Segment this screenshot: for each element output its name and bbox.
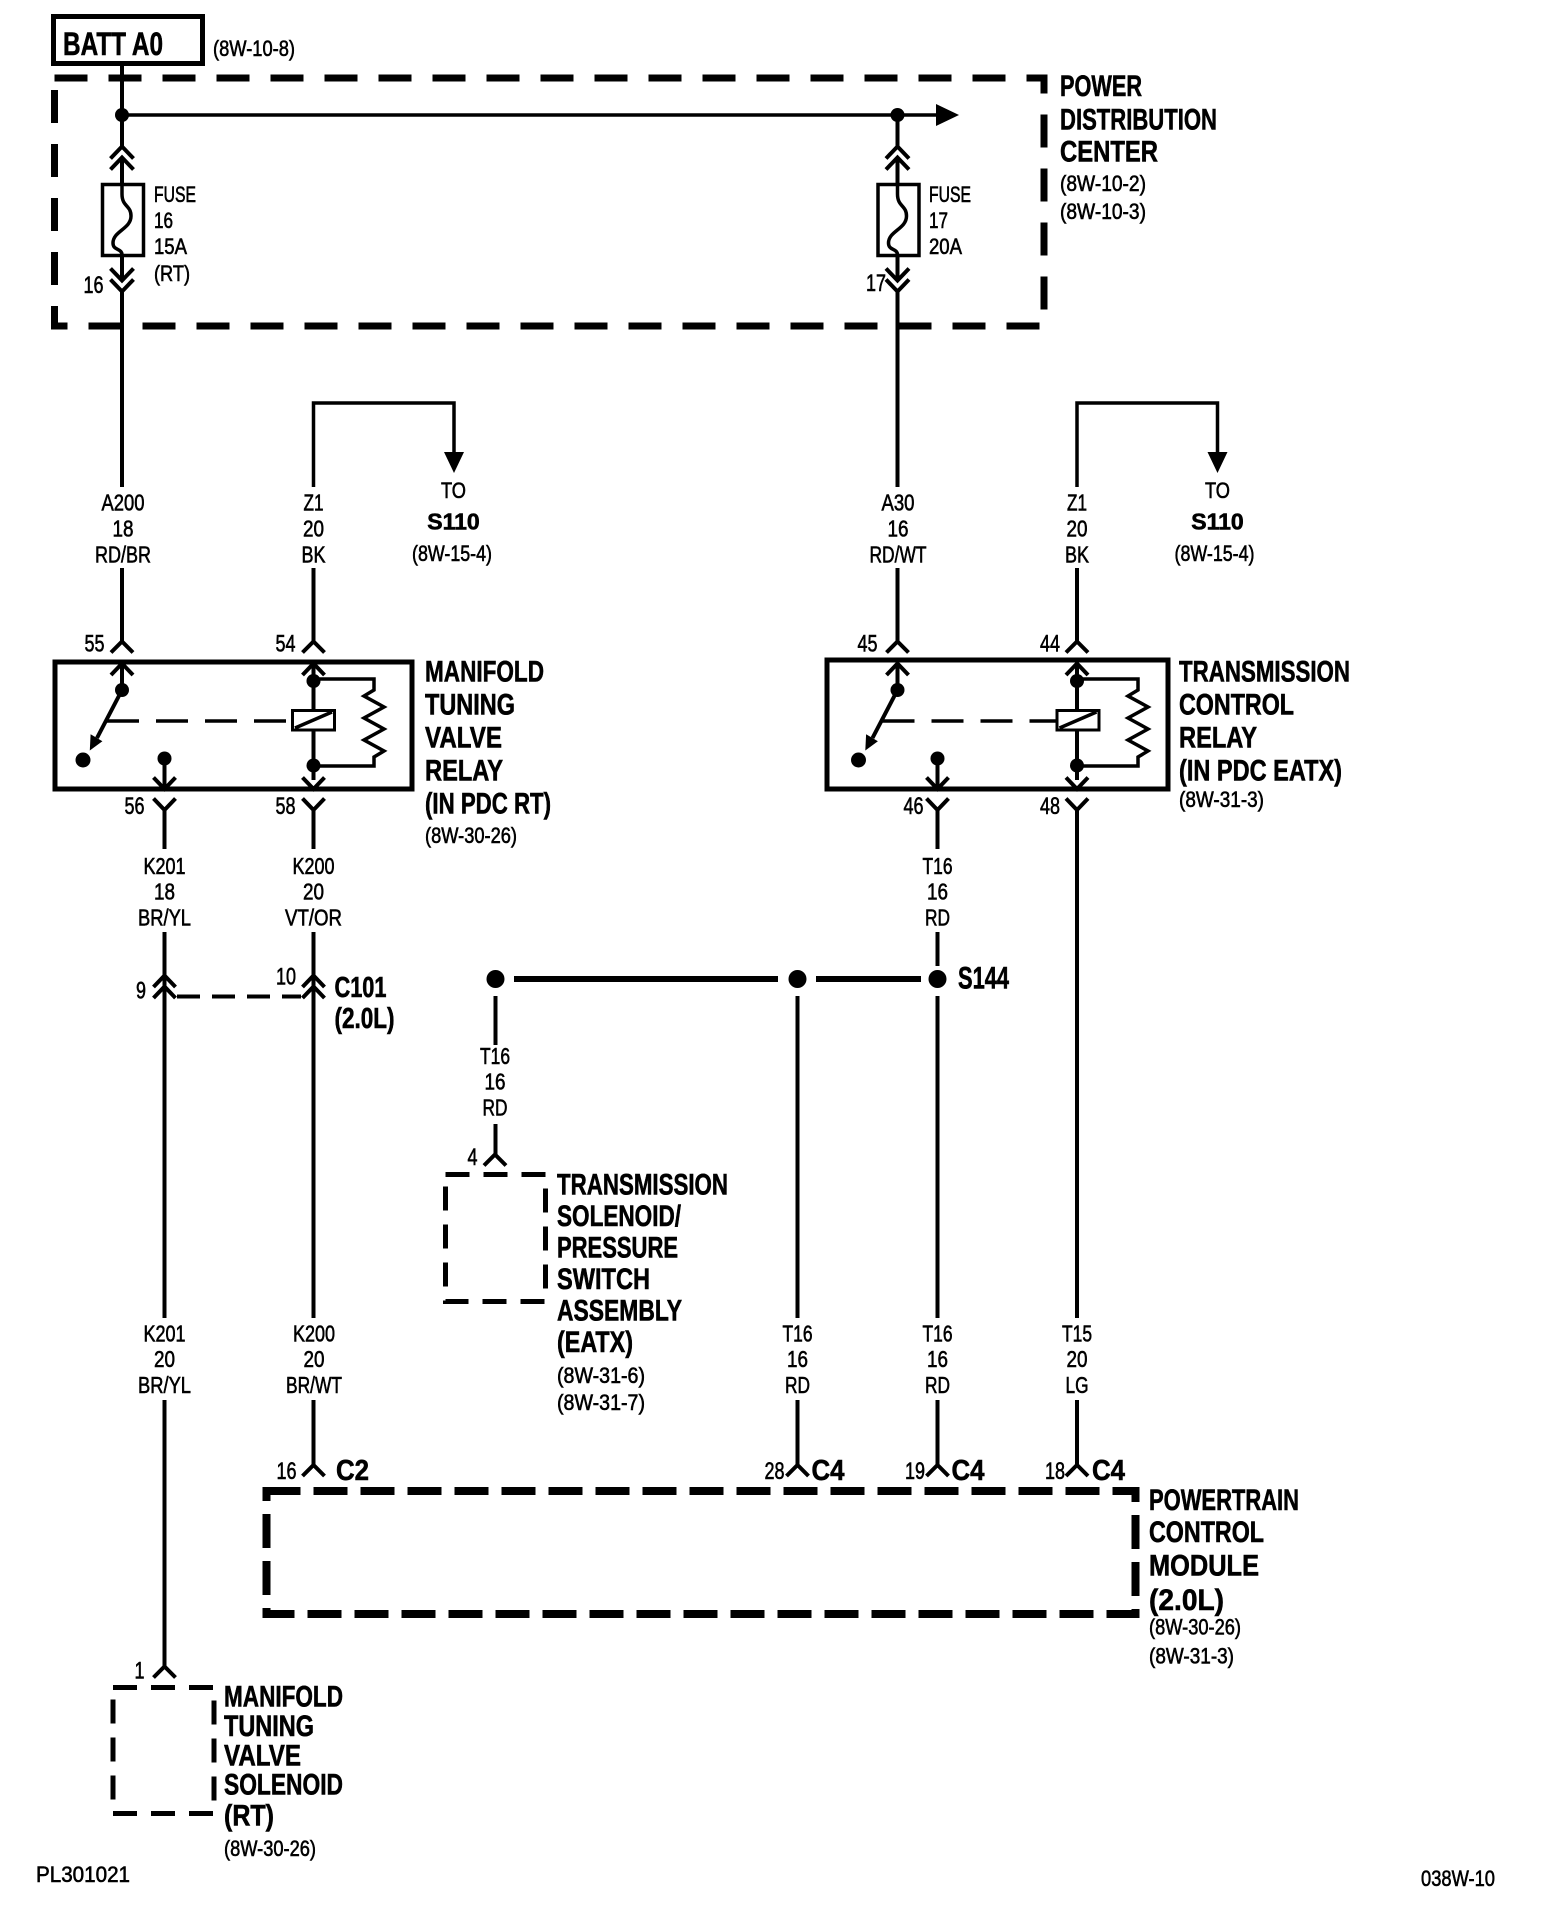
MANIFOLD TUNING VALVE SOLENOID label bbox=[224, 1681, 343, 1862]
svg-text:C4: C4 bbox=[952, 1455, 985, 1487]
svg-text:28: 28 bbox=[765, 1458, 785, 1485]
MANIFOLD TUNING VALVE RELAY label bbox=[425, 656, 551, 849]
wire label A30 16 RD/WT bbox=[870, 490, 927, 568]
svg-text:TRANSMISSION: TRANSMISSION bbox=[557, 1169, 728, 1202]
wire Z1 down to relay pin 44 bbox=[1075, 568, 1079, 641]
svg-text:(IN PDC EATX): (IN PDC EATX) bbox=[1179, 755, 1342, 788]
svg-text:44: 44 bbox=[1040, 631, 1060, 658]
svg-text:K200: K200 bbox=[293, 853, 335, 879]
svg-text:BATT A0: BATT A0 bbox=[63, 26, 163, 62]
node S144 right bbox=[929, 970, 947, 988]
svg-text:MANIFOLD: MANIFOLD bbox=[425, 656, 544, 689]
fuse 16 lower pin chevrons + pin 16 bbox=[111, 255, 134, 292]
svg-text:SOLENOID/: SOLENOID/ bbox=[557, 1200, 681, 1233]
svg-text:TO: TO bbox=[1205, 478, 1230, 503]
fuse 17 lower pin chevrons + pin 17 bbox=[886, 255, 909, 292]
relay K2 pivot dashed link bbox=[883, 719, 1057, 723]
pin 56 fork below relay bbox=[154, 799, 176, 850]
BATT A0 feed box bbox=[54, 17, 203, 64]
svg-text:15A: 15A bbox=[154, 234, 187, 259]
svg-text:A200: A200 bbox=[102, 490, 145, 516]
svg-text:SOLENOID: SOLENOID bbox=[224, 1769, 343, 1802]
svg-text:20A: 20A bbox=[929, 234, 962, 259]
wire pin46 to S144 bbox=[936, 932, 940, 966]
wire T16 to PCM pin 28 bbox=[796, 1400, 800, 1465]
wire K200 long run down bbox=[312, 987, 316, 1318]
svg-text:9: 9 bbox=[136, 978, 146, 1005]
svg-text:S110: S110 bbox=[427, 509, 479, 535]
svg-text:038W-10: 038W-10 bbox=[1421, 1866, 1495, 1891]
wire label K200 20 BR/WT (bottom) bbox=[286, 1321, 342, 1399]
svg-text:(8W-10-3): (8W-10-3) bbox=[1060, 199, 1146, 224]
relay K2 resistor bbox=[1077, 679, 1148, 766]
relay K1 switch arm with arrow bbox=[97, 690, 122, 738]
svg-text:(8W-31-7): (8W-31-7) bbox=[557, 1390, 645, 1415]
PCM pin 16 fork bbox=[303, 1465, 325, 1476]
svg-text:VALVE: VALVE bbox=[425, 722, 502, 755]
svg-text:BR/YL: BR/YL bbox=[138, 905, 191, 931]
wire S144 right down to PCM pin 19 bbox=[936, 996, 940, 1318]
TRANSMISSION SOLENOID/PRESSURE SWITCH ASSEMBLY dashed box bbox=[446, 1175, 546, 1302]
svg-text:T16: T16 bbox=[480, 1043, 510, 1069]
svg-text:RD: RD bbox=[483, 1095, 508, 1121]
svg-text:16: 16 bbox=[888, 516, 909, 542]
C101 pin 9 double chevron bbox=[154, 976, 176, 999]
svg-text:(IN PDC RT): (IN PDC RT) bbox=[425, 788, 551, 821]
TRANSMISSION SOLENOID/PRESSURE SWITCH ASSEMBLY label bbox=[557, 1169, 728, 1416]
C101 pin 10 double chevron bbox=[303, 976, 325, 999]
wire BATT A0 down to bus bbox=[120, 64, 124, 115]
svg-text:RELAY: RELAY bbox=[1179, 722, 1257, 755]
svg-text:TO: TO bbox=[441, 478, 466, 503]
svg-text:MANIFOLD: MANIFOLD bbox=[224, 1681, 343, 1714]
pin 58 chevron at relay bottom bbox=[303, 778, 325, 790]
svg-text:PRESSURE: PRESSURE bbox=[557, 1232, 678, 1265]
splice S144 bus bbox=[514, 976, 778, 982]
svg-text:C4: C4 bbox=[1092, 1455, 1125, 1487]
PCM pin 19 fork bbox=[927, 1465, 949, 1476]
svg-text:18: 18 bbox=[1045, 1458, 1065, 1485]
svg-text:55: 55 bbox=[85, 631, 105, 658]
FUSE 17 20A value label bbox=[929, 182, 971, 259]
svg-text:SWITCH: SWITCH bbox=[557, 1263, 650, 1296]
fuse 16 branch: wire + pin chevrons bbox=[111, 115, 134, 185]
svg-text:CONTROL: CONTROL bbox=[1149, 1516, 1264, 1549]
svg-text:RD: RD bbox=[925, 1372, 950, 1398]
relay K1 MANIFOLD TUNING VALVE RELAY box bbox=[55, 662, 412, 789]
wire A200 from PDC to relay pin 55 bbox=[120, 291, 124, 487]
wire T16 to solenoid assembly bbox=[494, 996, 498, 1045]
wire K201 to C101 pin 9 bbox=[163, 932, 167, 996]
C101 connector dashed line bbox=[177, 995, 301, 999]
power distribution center dashed box bbox=[55, 78, 1045, 326]
svg-text:C2: C2 bbox=[336, 1455, 369, 1487]
pin 44 chevron inside relay bbox=[1066, 664, 1088, 676]
svg-text:RD/BR: RD/BR bbox=[95, 542, 151, 568]
relay K1 resistor bbox=[314, 679, 385, 766]
fuse 17 body bbox=[878, 185, 919, 256]
svg-text:(RT): (RT) bbox=[154, 261, 190, 286]
svg-text:Z1: Z1 bbox=[1067, 490, 1087, 516]
pin 44 connector fork bbox=[1066, 628, 1088, 653]
pin 48 fork below relay bbox=[1066, 799, 1088, 1319]
relay K2 switch arm with arrow bbox=[873, 690, 898, 738]
svg-text:(8W-30-26): (8W-30-26) bbox=[425, 823, 517, 848]
svg-text:MODULE: MODULE bbox=[1149, 1550, 1259, 1583]
svg-text:T16: T16 bbox=[783, 1321, 813, 1347]
junction node at fuse 16 bbox=[115, 108, 129, 122]
pin 54 connector fork bbox=[303, 628, 325, 653]
wire K201 label bbox=[138, 853, 191, 931]
wire T16 label below pin 46 bbox=[923, 853, 953, 931]
svg-text:20: 20 bbox=[304, 1346, 325, 1372]
svg-text:20: 20 bbox=[303, 879, 324, 905]
svg-text:(8W-31-3): (8W-31-3) bbox=[1149, 1644, 1234, 1669]
pin 46 node and chevron bbox=[931, 752, 945, 766]
svg-text:RD: RD bbox=[925, 905, 950, 931]
svg-text:16: 16 bbox=[485, 1069, 506, 1095]
svg-text:C4: C4 bbox=[812, 1455, 845, 1487]
svg-text:16: 16 bbox=[927, 879, 948, 905]
wire T16 to PCM pin 19 bbox=[936, 1400, 940, 1465]
svg-text:FUSE: FUSE bbox=[929, 182, 971, 207]
svg-text:16: 16 bbox=[154, 208, 173, 233]
svg-text:46: 46 bbox=[904, 793, 924, 820]
svg-text:VT/OR: VT/OR bbox=[285, 905, 342, 931]
TO S110 (8W-15-4) left bbox=[412, 478, 492, 566]
pin 46 fork below relay bbox=[927, 799, 949, 850]
svg-text:CONTROL: CONTROL bbox=[1179, 689, 1294, 722]
wire Z1 20 BK label (right) bbox=[1065, 490, 1090, 568]
POWERTRAIN CONTROL MODULE label bbox=[1149, 1484, 1299, 1669]
svg-text:K201: K201 bbox=[144, 1321, 186, 1347]
POWER DISTRIBUTION CENTER label bbox=[1060, 70, 1217, 224]
svg-text:Z1: Z1 bbox=[304, 490, 324, 516]
pin 56 node and chevron bbox=[158, 752, 172, 766]
svg-text:S144: S144 bbox=[958, 960, 1009, 996]
node S144 left bbox=[487, 970, 505, 988]
svg-text:18: 18 bbox=[154, 879, 175, 905]
svg-text:(8W-10-8): (8W-10-8) bbox=[213, 36, 295, 61]
svg-text:(RT): (RT) bbox=[224, 1800, 274, 1833]
svg-text:56: 56 bbox=[125, 793, 145, 820]
svg-text:58: 58 bbox=[276, 793, 296, 820]
svg-text:(8W-30-26): (8W-30-26) bbox=[1149, 1615, 1241, 1640]
TRANSMISSION CONTROL RELAY label bbox=[1179, 656, 1350, 813]
wire label T15 20 LG bbox=[1062, 1321, 1092, 1399]
svg-text:DISTRIBUTION: DISTRIBUTION bbox=[1060, 104, 1217, 137]
wire A30 from PDC to relay pin 45 bbox=[896, 291, 900, 487]
svg-text:(8W-31-3): (8W-31-3) bbox=[1179, 787, 1264, 812]
svg-text:TUNING: TUNING bbox=[425, 689, 515, 722]
bus wire across PDC with arrow bbox=[122, 113, 938, 117]
pin 45 connector fork bbox=[887, 628, 909, 653]
wire Z1 down to relay pin 54 bbox=[312, 568, 316, 641]
wire Z1 20 BK label (left) bbox=[302, 490, 327, 568]
svg-text:17: 17 bbox=[866, 270, 886, 297]
svg-text:POWER: POWER bbox=[1060, 70, 1142, 103]
relay K2 TRANSMISSION CONTROL RELAY box bbox=[827, 660, 1168, 789]
svg-text:(8W-15-4): (8W-15-4) bbox=[412, 541, 492, 566]
svg-text:BK: BK bbox=[1065, 542, 1090, 568]
wire K200 to PCM pin 16 bbox=[312, 1400, 316, 1465]
svg-text:(8W-30-26): (8W-30-26) bbox=[224, 1836, 316, 1861]
svg-text:45: 45 bbox=[858, 631, 878, 658]
relay K1 coil bottom node bbox=[312, 730, 316, 780]
wire label K201 20 BR/YL (bottom) bbox=[138, 1321, 191, 1399]
wire K200 to C101 pin 10 bbox=[312, 932, 316, 996]
C101 (2.0L) label bbox=[335, 972, 395, 1035]
svg-text:20: 20 bbox=[303, 516, 324, 542]
svg-text:POWERTRAIN: POWERTRAIN bbox=[1149, 1484, 1299, 1517]
pin 54 chevron inside relay bbox=[303, 664, 325, 676]
svg-text:19: 19 bbox=[905, 1458, 925, 1485]
svg-text:RD: RD bbox=[785, 1372, 810, 1398]
svg-text:C101: C101 bbox=[335, 972, 387, 1004]
wire K200 label bbox=[285, 853, 342, 931]
svg-text:(2.0L): (2.0L) bbox=[335, 1003, 395, 1035]
svg-text:K200: K200 bbox=[293, 1321, 335, 1347]
svg-text:RD/WT: RD/WT bbox=[870, 542, 927, 568]
svg-text:54: 54 bbox=[276, 631, 296, 658]
node S144 middle bbox=[789, 970, 807, 988]
svg-text:K201: K201 bbox=[144, 853, 186, 879]
svg-text:(EATX): (EATX) bbox=[557, 1326, 633, 1359]
relay K2 coil bottom node bbox=[1075, 730, 1079, 780]
svg-text:LG: LG bbox=[1066, 1372, 1089, 1398]
svg-text:S110: S110 bbox=[1191, 509, 1243, 535]
svg-text:(2.0L): (2.0L) bbox=[1149, 1584, 1224, 1617]
svg-text:FUSE: FUSE bbox=[154, 182, 196, 207]
wire T15 to PCM pin 18 bbox=[1075, 1400, 1079, 1465]
wire K201 long run down bbox=[163, 987, 167, 1318]
svg-text:BK: BK bbox=[302, 542, 327, 568]
relay K1 coil top node bbox=[312, 664, 316, 711]
svg-text:BR/WT: BR/WT bbox=[286, 1372, 342, 1398]
svg-text:10: 10 bbox=[276, 964, 296, 991]
relay K1 coil box bbox=[293, 711, 335, 731]
svg-text:T16: T16 bbox=[923, 1321, 953, 1347]
svg-text:ASSEMBLY: ASSEMBLY bbox=[557, 1295, 682, 1328]
svg-text:16: 16 bbox=[277, 1458, 297, 1485]
svg-text:TUNING: TUNING bbox=[224, 1710, 314, 1743]
svg-text:4: 4 bbox=[468, 1144, 478, 1171]
svg-text:20: 20 bbox=[154, 1346, 175, 1372]
relay K2 coil top node bbox=[1075, 664, 1079, 711]
svg-text:PL301021: PL301021 bbox=[36, 1862, 130, 1887]
wire K201 down to solenoid pin 1 bbox=[163, 1400, 167, 1667]
svg-text:A30: A30 bbox=[882, 490, 915, 516]
svg-text:20: 20 bbox=[1067, 1346, 1088, 1372]
wire label T16 16 RD (bottom left) bbox=[783, 1321, 813, 1399]
wire Z1 jog to S110 (left) bbox=[314, 403, 455, 487]
fuse 17 branch: wire + pin chevrons bbox=[886, 115, 909, 185]
wire S144 middle down to PCM pin 28 bbox=[796, 996, 800, 1318]
svg-text:16: 16 bbox=[84, 272, 104, 299]
pin 58 fork below relay bbox=[303, 799, 325, 850]
svg-text:16: 16 bbox=[787, 1346, 808, 1372]
relay K1 switch common node bbox=[120, 664, 124, 686]
svg-text:T15: T15 bbox=[1062, 1321, 1092, 1347]
POWERTRAIN CONTROL MODULE dashed box bbox=[267, 1491, 1136, 1614]
pin 55 connector fork bbox=[111, 628, 133, 653]
pin 1 connector fork bbox=[154, 1667, 176, 1678]
junction node at fuse 17 bbox=[891, 108, 905, 122]
svg-text:(8W-15-4): (8W-15-4) bbox=[1175, 541, 1255, 566]
relay K2 coil box bbox=[1057, 711, 1099, 731]
svg-text:RELAY: RELAY bbox=[425, 755, 503, 788]
TO S110 (8W-15-4) right bbox=[1175, 478, 1255, 566]
fuse 16 body bbox=[103, 185, 144, 256]
relay K1 pivot dashed link bbox=[107, 719, 292, 723]
svg-text:(8W-31-6): (8W-31-6) bbox=[557, 1363, 645, 1388]
PCM pin 28 fork bbox=[787, 1465, 809, 1476]
svg-text:17: 17 bbox=[929, 208, 948, 233]
pin 48 chevron at relay bottom bbox=[1066, 778, 1088, 790]
wire Z1 jog to S110 (right) bbox=[1077, 403, 1218, 487]
svg-text:BR/YL: BR/YL bbox=[138, 1372, 191, 1398]
svg-text:1: 1 bbox=[135, 1658, 145, 1685]
wire T16 label mid bbox=[480, 1043, 510, 1121]
PCM pin 18 fork bbox=[1066, 1465, 1088, 1476]
MANIFOLD TUNING VALVE SOLENOID dashed box bbox=[113, 1688, 214, 1814]
svg-text:(8W-10-2): (8W-10-2) bbox=[1060, 171, 1146, 196]
pin 4 connector fork bbox=[484, 1155, 506, 1166]
svg-text:16: 16 bbox=[927, 1346, 948, 1372]
svg-text:T16: T16 bbox=[923, 853, 953, 879]
relay K2 switch common node bbox=[896, 664, 900, 686]
wire label T16 16 RD (bottom right) bbox=[923, 1321, 953, 1399]
FUSE 16 15A (RT) value label bbox=[154, 182, 196, 286]
svg-text:18: 18 bbox=[113, 516, 134, 542]
svg-text:CENTER: CENTER bbox=[1060, 136, 1158, 169]
wire label A200 18 RD/BR bbox=[95, 490, 151, 568]
svg-text:48: 48 bbox=[1040, 793, 1060, 820]
pin 45 chevron inside relay bbox=[887, 664, 909, 676]
svg-text:TRANSMISSION: TRANSMISSION bbox=[1179, 656, 1350, 689]
svg-text:20: 20 bbox=[1067, 516, 1088, 542]
pin 55 chevron inside relay bbox=[111, 664, 133, 676]
